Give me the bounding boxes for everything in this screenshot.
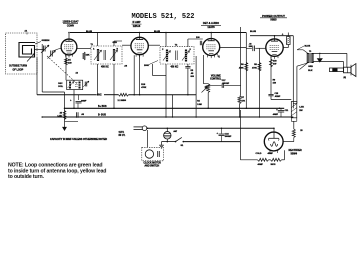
svg-text:3.3M: 3.3M xyxy=(197,104,202,106)
svg-text:40MF: 40MF xyxy=(273,113,279,116)
svg-text:2.2 MEG: 2.2 MEG xyxy=(118,100,127,102)
svg-text:GRN: GRN xyxy=(113,42,118,44)
svg-text:CLOCK MOTOR: CLOCK MOTOR xyxy=(144,163,162,165)
svg-text:470K: 470K xyxy=(239,66,244,69)
svg-text:12BA6: 12BA6 xyxy=(133,25,141,28)
svg-text:A2: A2 xyxy=(76,71,78,74)
svg-text:MODELS 521, 522: MODELS 521, 522 xyxy=(132,13,195,21)
svg-text:1K: 1K xyxy=(68,60,71,62)
svg-text:CAPACITY IN MMF UNLESS OTHERWI: CAPACITY IN MMF UNLESS OTHERWISE NOTED xyxy=(50,137,107,141)
svg-text:22K: 22K xyxy=(86,54,90,56)
svg-text:OUTSIDE TURN: OUTSIDE TURN xyxy=(9,65,27,68)
svg-text:456 KC: 456 KC xyxy=(101,65,109,68)
svg-text:GRN: GRN xyxy=(308,66,313,68)
svg-text:.1: .1 xyxy=(282,34,284,36)
svg-text:(8): (8) xyxy=(344,77,347,79)
svg-text:T3: T3 xyxy=(309,51,311,53)
svg-text:COIL: COIL xyxy=(58,86,64,88)
svg-text:to outside turn.: to outside turn. xyxy=(8,174,45,180)
svg-text:500MF: 500MF xyxy=(225,136,232,138)
svg-text:45MF: 45MF xyxy=(268,152,274,155)
svg-text:1.5K: 1.5K xyxy=(299,107,304,109)
svg-text:GREEN: GREEN xyxy=(42,40,50,42)
svg-text:60 CY.: 60 CY. xyxy=(119,135,126,137)
svg-text:40MF: 40MF xyxy=(258,163,264,166)
svg-text:35C5: 35C5 xyxy=(271,164,277,166)
svg-text:30MF: 30MF xyxy=(81,101,87,103)
svg-text:BLK: BLK xyxy=(308,70,313,72)
svg-text:.02MF: .02MF xyxy=(275,96,281,98)
svg-text:117V.: 117V. xyxy=(119,132,125,134)
svg-text:B+ BUS: B+ BUS xyxy=(98,106,107,108)
svg-text:BLUE: BLUE xyxy=(305,45,311,47)
svg-text:B- BUS: B- BUS xyxy=(98,115,106,117)
svg-text:POWER OUTPUT: POWER OUTPUT xyxy=(262,14,285,18)
svg-text:OSC: OSC xyxy=(58,83,63,85)
svg-text:CONTROL: CONTROL xyxy=(210,79,222,81)
svg-text:1.5K: 1.5K xyxy=(57,115,62,117)
svg-text:CONV: CONV xyxy=(67,24,75,27)
svg-text:12BE6-12SA7: 12BE6-12SA7 xyxy=(62,20,79,23)
svg-text:IF AMP: IF AMP xyxy=(132,21,140,24)
svg-text:DET & AUDIO: DET & AUDIO xyxy=(203,22,219,25)
svg-text:470K: 470K xyxy=(252,66,257,69)
svg-text:COLD: COLD xyxy=(256,153,262,155)
svg-text:470K: 470K xyxy=(141,86,146,89)
svg-text:.005 MF: .005 MF xyxy=(222,83,230,85)
svg-text:BLUE: BLUE xyxy=(250,31,256,33)
svg-text:OF LOOP: OF LOOP xyxy=(13,68,24,71)
svg-text:BLUE: BLUE xyxy=(154,31,160,33)
svg-text:35W4: 35W4 xyxy=(291,153,298,156)
svg-text:456 KC: 456 KC xyxy=(171,65,179,68)
svg-text:VOLUME: VOLUME xyxy=(211,75,221,77)
svg-text:1M: 1M xyxy=(205,86,208,88)
svg-text:AND SWITCH: AND SWITCH xyxy=(145,165,160,168)
svg-text:47K: 47K xyxy=(241,99,245,102)
svg-text:600: 600 xyxy=(249,46,252,48)
svg-text:50B5: 50B5 xyxy=(270,18,277,22)
svg-text:100K: 100K xyxy=(144,65,149,67)
svg-text:12AT6: 12AT6 xyxy=(207,26,215,29)
svg-text:BLUE: BLUE xyxy=(86,31,92,33)
